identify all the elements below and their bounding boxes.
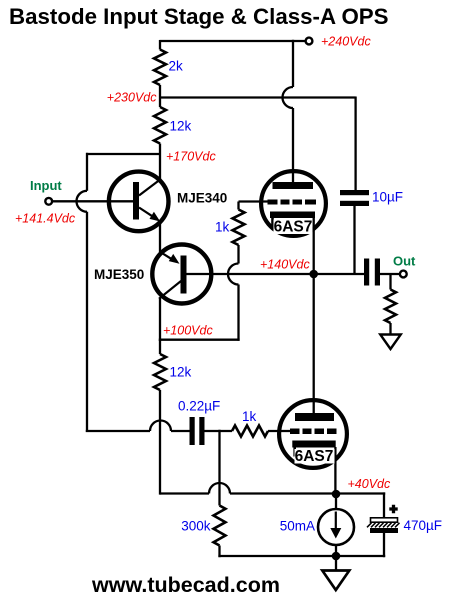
svg-text:+100Vdc: +100Vdc	[163, 324, 213, 338]
svg-text:+230Vdc: +230Vdc	[107, 91, 157, 105]
svg-text:50mA: 50mA	[280, 519, 315, 534]
svg-text:1k: 1k	[215, 220, 230, 235]
svg-text:+40Vdc: +40Vdc	[348, 477, 391, 491]
svg-text:300k: 300k	[181, 519, 211, 534]
svg-text:Bastode Input Stage & Class-A: Bastode Input Stage & Class-A OPS	[9, 4, 389, 29]
svg-text:2k: 2k	[169, 59, 184, 74]
svg-text:6AS7: 6AS7	[274, 219, 313, 236]
svg-text:12k: 12k	[170, 119, 192, 134]
svg-text:+141.4Vdc: +141.4Vdc	[15, 211, 76, 225]
svg-text:Input: Input	[30, 178, 62, 193]
svg-text:6AS7: 6AS7	[295, 448, 334, 465]
svg-text:12k: 12k	[170, 365, 192, 380]
svg-text:+170Vdc: +170Vdc	[166, 150, 216, 164]
svg-text:+140Vdc: +140Vdc	[260, 257, 310, 271]
svg-text:MJE350: MJE350	[94, 267, 144, 282]
svg-text:Out: Out	[393, 253, 416, 268]
svg-text:1k: 1k	[242, 409, 257, 424]
svg-text:0.22µF: 0.22µF	[178, 399, 220, 414]
svg-text:MJE340: MJE340	[177, 190, 227, 205]
svg-text:www.tubecad.com: www.tubecad.com	[91, 573, 280, 597]
svg-text:+240Vdc: +240Vdc	[321, 34, 371, 48]
svg-text:470µF: 470µF	[404, 518, 443, 533]
svg-text:10µF: 10µF	[372, 190, 403, 205]
